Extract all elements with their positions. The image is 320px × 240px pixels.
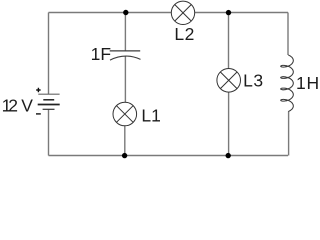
svg-text:V: V <box>21 95 33 115</box>
svg-text:2: 2 <box>8 95 18 115</box>
svg-text:1H: 1H <box>296 73 320 93</box>
svg-text:1F: 1F <box>91 44 111 64</box>
svg-text:L1: L1 <box>141 106 160 126</box>
svg-text:L2: L2 <box>174 24 194 44</box>
svg-text:L3: L3 <box>243 71 263 91</box>
